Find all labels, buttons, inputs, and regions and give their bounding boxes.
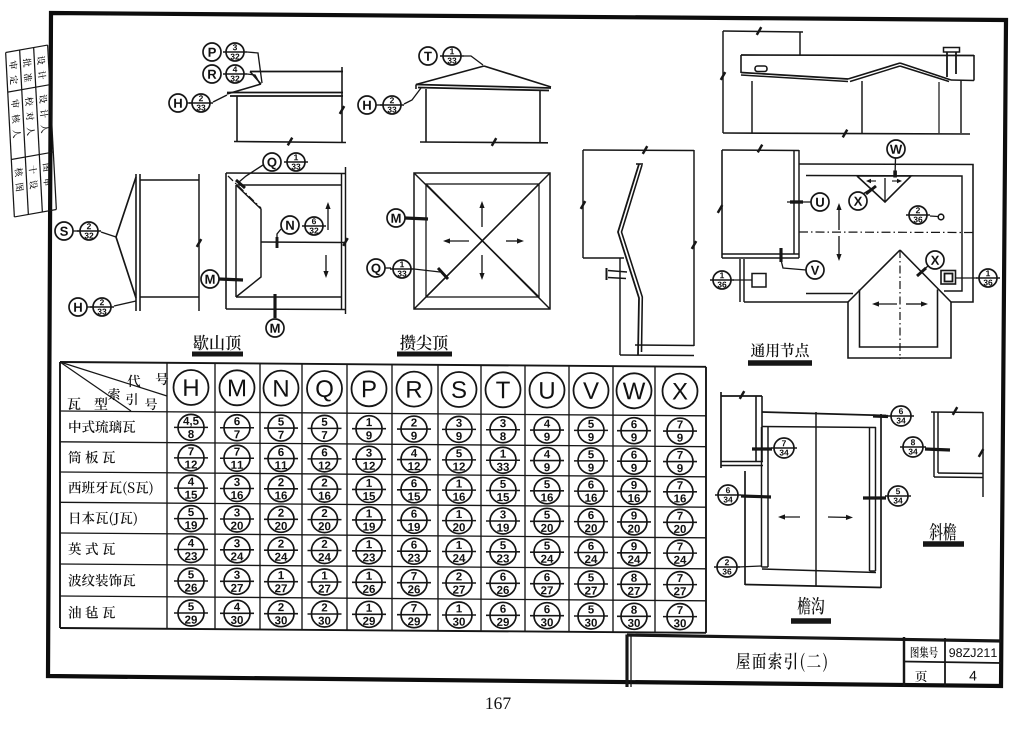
pyramidal roof plan <box>414 173 550 309</box>
label T 1/33 <box>419 47 437 65</box>
table grid <box>60 362 706 367</box>
label S 2/32 <box>55 222 73 240</box>
upper-left high block <box>721 150 723 258</box>
label Q 1/33 (plan) <box>263 153 281 171</box>
table row 西班牙瓦(S瓦) <box>69 481 82 493</box>
label M (pyramid) <box>387 209 405 227</box>
gutter channels <box>761 427 763 567</box>
label N 6/32 <box>281 216 299 234</box>
label 6/34 (top) <box>891 406 911 426</box>
label 1/36 (right) with vent square <box>979 269 997 287</box>
table row 英 式 瓦 <box>69 542 82 555</box>
ridge chain line <box>799 231 973 234</box>
label H 2/33 <box>69 298 87 316</box>
label 7/34 <box>774 438 794 458</box>
sloped eave corner figure <box>931 411 983 414</box>
drainage arrows (pyramid plan) <box>481 208 483 227</box>
label 8/34 <box>903 437 923 457</box>
drain pipe stub <box>608 271 627 273</box>
page number 4 <box>969 671 976 681</box>
gutter flow arrows <box>785 516 800 518</box>
general-nodes roof elevation <box>722 31 724 133</box>
label U <box>811 193 829 211</box>
projecting bay (pentagon) <box>860 290 938 348</box>
label H 2/33 <box>169 94 187 112</box>
label 6/34 (left) <box>718 485 738 505</box>
label 页 <box>915 670 926 682</box>
table row 波纹装饰瓦 <box>68 574 81 587</box>
gutter triangle <box>857 176 911 202</box>
table row 筒 板 瓦 <box>68 451 81 464</box>
header letter circles <box>174 370 209 405</box>
text 98ZJ211 <box>949 648 955 657</box>
label P 3/32 <box>203 43 221 61</box>
gutter outline <box>762 412 886 416</box>
title 斜檐 <box>930 523 943 541</box>
label X (lower) <box>926 251 944 269</box>
table row 油 毡 瓦 <box>68 606 81 619</box>
left binding-edge title strip <box>6 45 57 217</box>
xieshan roof plan <box>225 173 227 309</box>
valley section profile figure <box>582 150 584 258</box>
title 通用节点 <box>751 343 765 357</box>
walls and ground <box>751 81 753 133</box>
label V <box>806 261 824 279</box>
label 1/36 (left) with access square <box>713 271 731 289</box>
sheet title block <box>625 635 628 688</box>
label Q 1/33 (pyramid) <box>367 259 385 277</box>
plan outer eave line <box>799 164 973 302</box>
label 5/34 <box>888 486 908 506</box>
centre dividing line <box>815 412 817 586</box>
corner wall block <box>720 392 722 468</box>
label 图集号 <box>911 647 919 658</box>
label X (upper) <box>849 192 867 210</box>
page number 167 <box>486 697 492 709</box>
title 歇山顶 <box>193 335 208 351</box>
side elevation of xieshan roof (left margin figure) <box>135 174 137 311</box>
header diagonal cell <box>60 362 167 396</box>
label W <box>887 140 905 158</box>
title 攒尖顶 <box>400 335 415 351</box>
pyramidal roof elevation <box>416 66 484 85</box>
label M (left) <box>201 270 219 288</box>
label M (bottom) <box>266 319 284 337</box>
label 2/36 with vent <box>909 206 927 224</box>
drainage arrows (xieshan plan) <box>327 209 329 230</box>
plan inner eave line <box>806 176 962 292</box>
label R 4/32 <box>203 65 221 83</box>
title 檐沟 <box>798 597 811 615</box>
table row 日本瓦(J瓦) <box>71 512 80 524</box>
label H 2/33 <box>358 96 376 114</box>
bent roof plate (double line) <box>618 164 639 355</box>
chimney <box>946 52 948 77</box>
table row 中式琉璃瓦 <box>69 420 80 433</box>
title 屋面索引(二) <box>736 653 749 670</box>
flow arrows <box>838 210 840 230</box>
label 2/36 <box>717 557 737 577</box>
roof vent opening <box>755 66 767 72</box>
xieshan roof elevation <box>250 71 343 73</box>
